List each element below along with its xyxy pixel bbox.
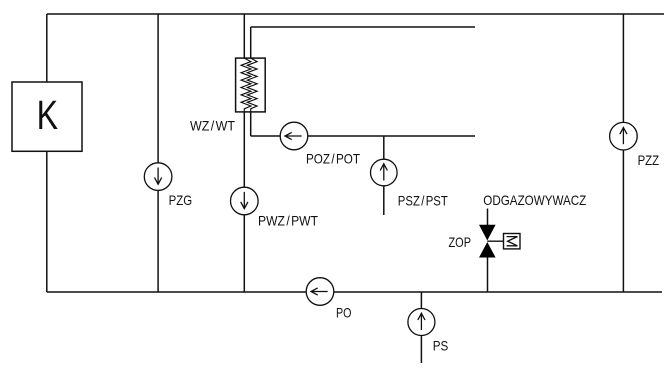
wire: deaerator line above valve ZOP xyxy=(487,209,489,226)
svg-text:WZ/WT: WZ/WT xyxy=(190,118,236,133)
heat exchanger WZ/WT xyxy=(236,58,266,112)
wire: bottom return header xyxy=(47,291,662,293)
wire: line below valve ZOP to return header xyxy=(487,258,489,293)
boiler K xyxy=(12,82,82,151)
pump PZZ (arrow up) xyxy=(610,122,638,150)
wire: PZZ branch vertical xyxy=(622,14,624,292)
wire: left vertical through boiler K xyxy=(46,14,48,292)
wire: exchanger left pipe to PWZ/PWT and return xyxy=(243,14,245,292)
valve ZOP (bowtie, filled) xyxy=(479,225,504,258)
actuator M box xyxy=(504,234,521,249)
wire: second header from exchanger xyxy=(251,26,475,28)
wire: top supply header xyxy=(47,13,664,15)
pump POZ/POT (arrow left) xyxy=(280,122,308,150)
svg-text:ODGAZOWYWACZ: ODGAZOWYWACZ xyxy=(483,193,586,208)
svg-text:PS: PS xyxy=(433,339,449,354)
svg-text:PWZ/PWT: PWZ/PWT xyxy=(258,214,318,229)
svg-text:POZ/POT: POZ/POT xyxy=(306,152,360,167)
pump PSZ/PST (arrow up) xyxy=(371,159,398,186)
svg-text:K: K xyxy=(37,92,59,138)
pump PO (arrow left) xyxy=(306,278,334,306)
pump PS (arrow up) xyxy=(408,309,435,336)
wire: POZ/POT horizontal line xyxy=(251,135,475,137)
svg-text:PZG: PZG xyxy=(169,193,193,208)
wire: PSZ/PST branch vertical xyxy=(383,136,385,215)
svg-text:PSZ/PST: PSZ/PST xyxy=(398,194,448,209)
wire: PZG branch vertical xyxy=(157,14,159,292)
pump PWZ/PWT (arrow down) xyxy=(231,187,259,215)
wire: PS branch vertical xyxy=(420,292,422,363)
svg-text:PO: PO xyxy=(336,305,352,320)
pump PZG (arrow down) xyxy=(144,163,172,191)
svg-text:ZOP: ZOP xyxy=(449,235,472,250)
wire: exchanger right pipe down to POZ line xyxy=(250,27,252,136)
svg-text:PZZ: PZZ xyxy=(638,153,660,168)
